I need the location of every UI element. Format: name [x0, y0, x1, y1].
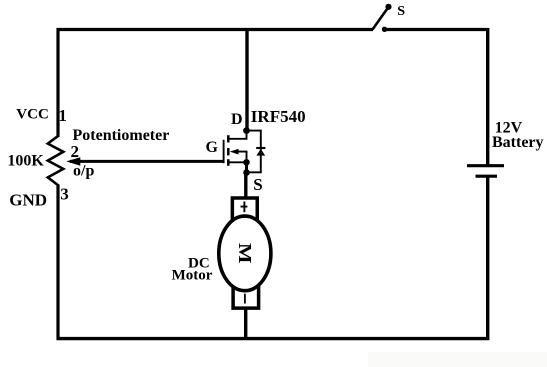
svg-text:o/p: o/p	[73, 163, 94, 180]
battery B1 long plate	[467, 164, 504, 167]
svg-text:Motor: Motor	[172, 267, 213, 283]
motor M1 top terminal box	[232, 198, 257, 221]
wire bottom rail	[57, 337, 490, 340]
wire between source dots	[245, 162, 248, 172]
wire left rail lower segment	[56, 185, 59, 341]
wire right rail lower segment	[486, 177, 489, 341]
svg-text:2: 2	[71, 142, 80, 161]
svg-text:G: G	[206, 139, 219, 156]
transistor Q1 channel bottom dash	[227, 159, 230, 166]
diode D1 cathode bar	[256, 147, 265, 149]
motor M1 plus sign	[241, 202, 248, 213]
node source junction dot lower	[243, 169, 250, 176]
transistor Q1 channel middle dash	[227, 148, 230, 155]
potentiometer wiper arrowhead	[66, 157, 80, 166]
svg-text:GND: GND	[9, 190, 47, 209]
svg-text:M: M	[235, 243, 255, 264]
potentiometer 100K zigzag body	[48, 136, 64, 186]
switch S lever tip contact dot	[385, 4, 391, 10]
motor M1 letter M rotated	[235, 243, 255, 264]
transistor Q1 body arrow line	[235, 152, 247, 163]
wire motor to bottom rail	[244, 307, 247, 340]
svg-text:Potentiometer: Potentiometer	[73, 127, 170, 144]
svg-text:3: 3	[60, 184, 69, 203]
wire source to motor	[244, 173, 247, 200]
transistor Q1 body arrowhead	[230, 149, 239, 155]
battery B1 short plate	[476, 175, 498, 178]
node source junction dot upper	[243, 159, 250, 166]
wire body diode branch	[247, 131, 261, 173]
svg-text:D: D	[231, 111, 243, 128]
wire drain to channel	[228, 131, 246, 139]
transistor Q1 gate bar	[223, 140, 225, 163]
node drain junction dot	[243, 127, 250, 134]
svg-text:VCC: VCC	[16, 106, 49, 122]
svg-text:Battery: Battery	[492, 134, 544, 151]
svg-text:1: 1	[58, 106, 67, 125]
motor M1 minus sign	[244, 294, 246, 304]
motor M1 bottom terminal box	[233, 286, 259, 308]
wire top rail left segment	[57, 28, 374, 31]
diode D1 triangle	[256, 149, 265, 156]
switch S lever	[373, 7, 389, 30]
wire top rail right segment	[385, 28, 489, 31]
transistor Q1 channel top dash	[227, 135, 230, 142]
switch S fixed contact dot	[382, 27, 387, 32]
watermark remnant	[368, 352, 547, 367]
svg-text:S: S	[253, 175, 262, 194]
svg-text:IRF540: IRF540	[251, 107, 306, 126]
wire gate from potentiometer wiper	[70, 160, 224, 163]
svg-text:100K: 100K	[7, 153, 44, 170]
wire middle branch drain from top rail	[245, 28, 248, 131]
wire left rail upper segment	[56, 28, 59, 137]
wire right rail upper segment	[486, 28, 489, 167]
transistor Q1 source link	[230, 161, 247, 163]
svg-text:S: S	[397, 4, 405, 19]
motor M1 body ellipse	[219, 216, 271, 291]
